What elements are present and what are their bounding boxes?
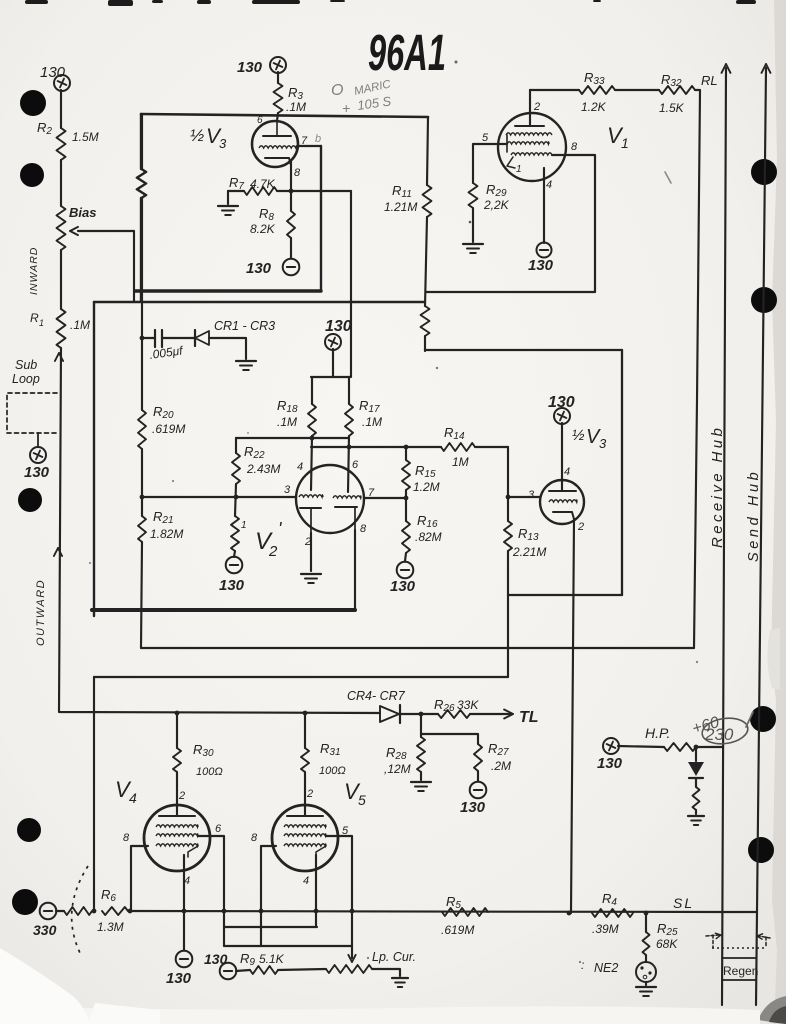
svg-text:2.21M: 2.21M [512,545,546,559]
svg-text:2: 2 [533,101,540,113]
svg-text:Loop: Loop [12,372,40,386]
svg-text:RL: RL [701,73,718,88]
svg-text:130: 130 [237,59,263,76]
svg-text:130: 130 [325,318,352,335]
svg-text:H.P.: H.P. [645,725,670,741]
svg-text:2: 2 [577,521,584,533]
svg-text:130: 130 [40,64,66,81]
svg-text:CR1 - CR3: CR1 - CR3 [214,319,275,333]
svg-text:3: 3 [284,484,291,496]
svg-text:130: 130 [204,951,228,967]
svg-text:O: O [331,82,343,99]
svg-text:3: 3 [219,136,227,151]
svg-text:1.5K: 1.5K [659,101,685,115]
svg-text::: : [581,958,584,972]
svg-text:Bias: Bias [69,205,96,220]
svg-text:130: 130 [166,970,192,987]
svg-text:½: ½ [572,427,585,444]
svg-text:8: 8 [294,167,301,179]
svg-text:4: 4 [546,179,552,191]
svg-text:2: 2 [306,788,313,800]
svg-text:Lp. Cur.: Lp. Cur. [372,950,416,964]
svg-text:8: 8 [571,141,578,153]
svg-text:2: 2 [268,543,278,560]
svg-text:.619M: .619M [152,422,185,436]
svg-text:.619M: .619M [441,923,474,937]
svg-text:1.2K: 1.2K [581,100,607,114]
svg-text:NE2: NE2 [594,961,618,975]
svg-text:1: 1 [516,164,522,175]
svg-text:Sub: Sub [15,358,37,372]
svg-text:8: 8 [360,523,367,535]
svg-text:b: b [315,133,321,145]
svg-text:330: 330 [33,922,57,938]
svg-text:130: 130 [597,755,623,772]
svg-text:R: R [30,311,39,325]
svg-text:1.2M: 1.2M [413,480,440,494]
svg-text:6: 6 [257,115,263,126]
svg-text:1.21M: 1.21M [384,200,417,214]
svg-text:3: 3 [599,436,607,451]
svg-text:8.2K: 8.2K [250,222,276,236]
svg-text:5: 5 [358,792,366,808]
svg-text:½: ½ [190,126,204,145]
svg-text:4: 4 [564,466,570,478]
svg-text:3: 3 [528,489,535,501]
svg-text:.82M: .82M [415,530,442,544]
svg-text:2,2K: 2,2K [483,198,510,212]
svg-text:8: 8 [123,832,130,844]
svg-text:4: 4 [303,875,309,887]
svg-text:.1M: .1M [277,415,297,429]
svg-text:7: 7 [301,135,308,147]
svg-text:.1M: .1M [362,415,382,429]
svg-text:5.1K: 5.1K [259,952,285,966]
svg-text:Send Hub: Send Hub [746,469,762,562]
svg-text:130: 130 [390,578,416,595]
svg-text:1M: 1M [452,455,469,469]
svg-text:.39M: .39M [592,922,619,936]
svg-text:1: 1 [39,318,44,328]
svg-text:': ' [278,519,282,539]
svg-text:,12M: ,12M [384,762,411,776]
svg-text:4: 4 [129,790,137,806]
svg-text:2.43M: 2.43M [246,462,280,476]
svg-text:130: 130 [460,799,486,816]
svg-text:OUTWARD: OUTWARD [35,579,47,646]
svg-text:1.82M: 1.82M [150,527,183,541]
svg-text:130: 130 [246,260,272,277]
svg-text:130: 130 [528,257,554,274]
svg-text:1.3M: 1.3M [97,920,124,934]
svg-text:+: + [342,100,350,116]
svg-text:7: 7 [368,487,375,499]
svg-text:96A1: 96A1 [368,25,446,82]
svg-text:130: 130 [219,577,245,594]
svg-text:2: 2 [178,790,185,802]
svg-text:TL: TL [519,709,539,726]
svg-text:Receive Hub: Receive Hub [709,425,726,548]
svg-text:.2M: .2M [491,759,511,773]
svg-text:.1M: .1M [286,100,306,114]
svg-text:100Ω: 100Ω [196,766,223,778]
svg-text:5: 5 [482,132,489,144]
svg-text:4: 4 [297,461,303,473]
svg-text:INWARD: INWARD [28,247,40,295]
svg-text:8: 8 [251,832,258,844]
svg-text:68K: 68K [656,937,678,951]
svg-text:SL: SL [673,895,694,911]
svg-text:130: 130 [24,464,50,481]
svg-text:1: 1 [241,520,247,531]
svg-text:1: 1 [621,135,629,151]
svg-text:Regen: Regen [723,964,758,978]
svg-text:6: 6 [352,459,359,471]
svg-text:6: 6 [215,823,222,835]
svg-text:100Ω: 100Ω [319,765,346,777]
svg-text:CR4- CR7: CR4- CR7 [347,689,406,703]
svg-text:1.5M: 1.5M [72,130,99,144]
svg-text:.1M: .1M [70,318,90,332]
